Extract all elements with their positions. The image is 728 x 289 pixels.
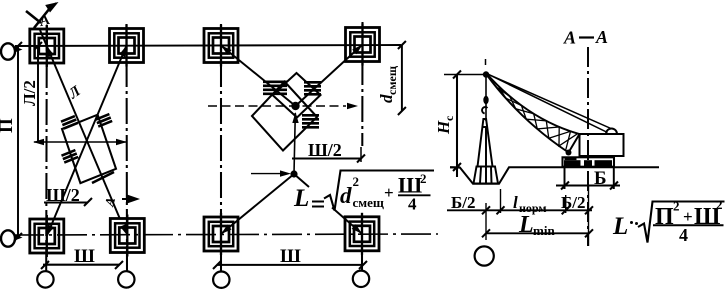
crawler track hatch right bbox=[95, 114, 112, 126]
wire: horizontal double-arrow line at crane centre left group bbox=[34, 141, 126, 143]
pile circle under crane bbox=[475, 246, 494, 265]
dimension row 2: Lmin bbox=[486, 232, 589, 234]
track hatch middle-right bbox=[304, 82, 321, 94]
crane body rotated square (plan, left) bbox=[62, 115, 116, 183]
svg-text:смещ: смещ bbox=[353, 195, 384, 210]
svg-text:А: А bbox=[37, 12, 52, 30]
svg-text:Б: Б bbox=[594, 168, 607, 189]
wire: top row axis line bbox=[15, 45, 401, 46]
pile cap symbol S4 bbox=[346, 24, 380, 66]
dimension Hc vertical bbox=[456, 75, 458, 178]
strut body to boom foot bbox=[569, 134, 580, 153]
wire: diagonal node to S8 bbox=[294, 174, 309, 187]
crane plan diamond position 1 bbox=[273, 73, 321, 118]
wire: dashed displaced axis with arrow bbox=[208, 105, 346, 107]
extension lines bbox=[485, 203, 487, 240]
svg-text:4: 4 bbox=[408, 195, 417, 214]
wire: thin arrow into node bbox=[251, 173, 283, 175]
crawler track hatch bottom bbox=[61, 150, 78, 162]
svg-text:2: 2 bbox=[673, 199, 680, 214]
svg-text:Б/2: Б/2 bbox=[451, 193, 475, 212]
column centreline right bbox=[125, 24, 128, 271]
crane axis centreline bbox=[587, 47, 589, 246]
pile cap symbol S2 bbox=[110, 25, 144, 67]
wire: bottom row dash-dot axis line bbox=[14, 234, 438, 235]
svg-text:А: А bbox=[595, 27, 608, 47]
label Lmin bbox=[518, 212, 555, 238]
pile cap symbol S6 bbox=[110, 215, 144, 257]
pile hanging on hook bbox=[474, 119, 499, 184]
pile circle bottom middle 2 bbox=[353, 271, 369, 287]
node: displaced crane centre dot bbox=[291, 102, 299, 110]
crane plan diamond position 2 bbox=[252, 82, 317, 151]
svg-text:L: L bbox=[612, 213, 628, 240]
pile circle bottom left 2 bbox=[118, 271, 134, 287]
node: left edge circle bottom bbox=[1, 230, 15, 246]
pile cap symbol S7 bbox=[204, 213, 238, 255]
svg-text:L: L bbox=[518, 212, 534, 238]
dimension row 1: Б/2, l норм, Б/2 bbox=[447, 209, 592, 211]
svg-text:П: П bbox=[0, 118, 17, 133]
svg-text:2: 2 bbox=[420, 171, 427, 186]
pile cap symbol S1 bbox=[30, 25, 64, 67]
dimension line Ш/2 middle bbox=[292, 157, 361, 159]
section mark A top: arrowhead bbox=[45, 2, 58, 13]
track hatch middle-left bbox=[263, 82, 287, 94]
ground line with trench bbox=[450, 167, 659, 184]
wire: diagonal S3 to displaced centre bbox=[221, 46, 296, 107]
column centreline left bbox=[45, 25, 48, 271]
svg-text:4: 4 bbox=[679, 225, 688, 245]
wire: vertical from dot down to node bbox=[294, 113, 295, 174]
section mark A top: perpendicular stroke bbox=[26, 11, 41, 23]
svg-text:H: H bbox=[434, 120, 453, 135]
pile cap symbol S8 bbox=[345, 213, 379, 255]
svg-text:Ш: Ш bbox=[280, 246, 301, 267]
wire: apex level line bbox=[444, 74, 486, 76]
boom lattice bracing bbox=[498, 86, 570, 151]
machine body bbox=[580, 134, 624, 156]
wire: diagonal S2 to S5 bbox=[47, 46, 127, 237]
label Hc bbox=[434, 115, 456, 135]
node: boom apex dot bbox=[483, 71, 489, 77]
section mark A bottom: arrowhead bbox=[126, 194, 140, 204]
boom upper chord bbox=[487, 74, 582, 135]
dimension Б box bbox=[564, 167, 566, 189]
svg-text:Л: Л bbox=[65, 83, 84, 103]
crawler track hatch left bbox=[61, 116, 78, 128]
svg-text:2: 2 bbox=[716, 197, 723, 212]
boom lower chord bbox=[487, 75, 569, 153]
svg-text:L: L bbox=[293, 185, 309, 212]
dimension line Ш left group bbox=[43, 264, 119, 266]
pile cap symbol S3 bbox=[204, 25, 238, 67]
section mark A top: stroke bbox=[34, 8, 50, 28]
track hatch middle-lower-right bbox=[302, 115, 319, 127]
label l норм bbox=[513, 193, 547, 215]
svg-text:+: + bbox=[384, 183, 394, 202]
svg-text:Л/2: Л/2 bbox=[20, 80, 39, 106]
node: formula leader dot bbox=[290, 170, 297, 177]
section mark A bottom: perpendicular stroke bbox=[92, 172, 114, 183]
dimension line Ш middle group bbox=[217, 264, 364, 266]
dimension d смещ vertical bbox=[401, 45, 403, 111]
svg-text:А: А bbox=[563, 28, 576, 48]
dimension Л/2 vertical line bbox=[37, 46, 39, 142]
pulley on body bbox=[606, 129, 617, 134]
hoist line and hook bbox=[485, 77, 487, 121]
pile circle bottom left 1 bbox=[37, 271, 53, 287]
hoist cable 2 to pulley bbox=[487, 74, 608, 133]
wire: diagonal section line A (S1 to S6) bbox=[40, 30, 120, 219]
column centreline middle-right bbox=[361, 22, 363, 146]
node: boom foot dot bbox=[566, 150, 572, 156]
wire: diagonal node to S7 bbox=[221, 174, 294, 234]
svg-text:с: с bbox=[442, 115, 456, 121]
svg-text:l: l bbox=[513, 193, 518, 212]
column centreline middle-left bbox=[220, 24, 222, 271]
formula 2: L = sqrt((П²+Ш²)/4) bbox=[612, 197, 725, 245]
formula 1: L = sqrt(d^2смещ + Ш^2/4) bbox=[293, 171, 434, 214]
svg-text:d: d bbox=[340, 183, 352, 208]
pile cap symbol S5 bbox=[30, 215, 64, 257]
svg-text:А: А bbox=[101, 195, 118, 209]
node: left edge circle top bbox=[1, 43, 15, 59]
svg-text:min: min bbox=[533, 223, 555, 238]
svg-text:Б/2: Б/2 bbox=[561, 193, 585, 212]
hoist cable 1 to pulley bbox=[487, 74, 612, 129]
svg-text:+: + bbox=[683, 207, 693, 226]
pile circle bottom middle 1 bbox=[213, 272, 229, 288]
dimension П vertical line bbox=[17, 46, 19, 237]
wire: diagonal S4 to displaced centre bbox=[296, 45, 363, 107]
svg-text:Ш/2: Ш/2 bbox=[308, 140, 342, 160]
svg-text:2: 2 bbox=[353, 174, 360, 189]
crawler track band bbox=[563, 157, 615, 166]
svg-text:смещ: смещ bbox=[385, 65, 399, 95]
label d смещ bbox=[377, 65, 399, 103]
